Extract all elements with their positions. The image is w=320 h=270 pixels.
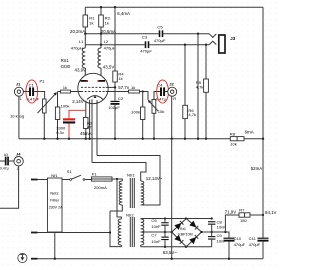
svg-text:Ntr2: Ntr2	[126, 213, 134, 218]
wire B+ right drop	[262, 7, 264, 215]
svg-text:63,5V~: 63,5V~	[163, 250, 177, 255]
tube cathode filament arc	[87, 96, 103, 100]
node dot 100k right	[142, 90, 144, 92]
svg-text:4,7k: 4,7k	[196, 84, 205, 89]
svg-text:4,7k: 4,7k	[188, 112, 197, 117]
svg-text:10nF: 10nF	[151, 224, 161, 229]
tube lead heater b	[96, 100, 98, 155]
earth symbol	[18, 253, 27, 262]
node dots plus line	[211, 231, 213, 233]
Ntr2 primary coil	[118, 219, 121, 245]
red highlight ellipse C1	[26, 80, 38, 103]
node dots secondary rails	[164, 217, 166, 219]
svg-text:J4: J4	[16, 151, 21, 156]
wire 1k right to pot2 wiper	[140, 92, 149, 101]
svg-text:12,14V~: 12,14V~	[146, 176, 163, 181]
node dot line B / L2	[100, 44, 102, 46]
potentiometer P1 10k log	[43, 99, 47, 113]
svg-text:10nF: 10nF	[151, 239, 161, 244]
wire pot2 bottom to rail	[153, 113, 155, 138]
Ntr2 core	[130, 217, 134, 247]
wire ground drop to PSU	[171, 139, 173, 259]
wire mains L down to Ntr2	[117, 179, 121, 219]
Ntr1 core	[130, 178, 134, 208]
capacitor C5 470µF	[159, 30, 161, 37]
svg-text:P1: P1	[40, 78, 46, 83]
svg-text:C2: C2	[118, 96, 124, 101]
svg-text:Br1: Br1	[180, 227, 186, 231]
node dot line A / R1	[84, 33, 86, 35]
svg-text:6mA: 6mA	[245, 129, 254, 134]
connector J3 body	[219, 35, 225, 53]
diode bottom-left	[174, 235, 181, 242]
inductor L1 470µH	[82, 34, 85, 81]
wire Ntr2 primary bottom	[110, 211, 121, 247]
svg-text:GI30: GI30	[61, 64, 71, 69]
potentiometer P2 10k	[152, 100, 156, 114]
svg-text:470µH: 470µH	[71, 45, 83, 50]
svg-text:470µF: 470µF	[154, 38, 166, 43]
wire bridge AC bottom rail	[141, 245, 212, 247]
svg-text:100k: 100k	[61, 103, 71, 108]
svg-text:150: 150	[240, 218, 248, 223]
wire bridge AC top rail	[141, 218, 212, 221]
svg-text:Rö1: Rö1	[61, 58, 70, 63]
capacitor 3300µF 6.3v red highlighted	[63, 118, 75, 120]
wire red cathode bypass link	[69, 110, 86, 118]
svg-text:6,4mA: 6,4mA	[117, 11, 130, 16]
svg-text:84,1V: 84,1V	[265, 210, 277, 215]
tube control grid dashed	[81, 91, 106, 93]
switch S1	[62, 175, 92, 179]
diode top-left	[174, 223, 181, 230]
svg-text:10k: 10k	[158, 109, 166, 114]
capacitor C11 470µF	[262, 215, 264, 238]
earth dash	[31, 258, 38, 260]
svg-text:470µF: 470µF	[140, 49, 152, 54]
node dots on common rail	[43, 138, 45, 140]
wire earth rail	[38, 258, 264, 260]
node dot mains L	[116, 178, 118, 180]
wire heater run a	[92, 163, 146, 182]
node dot R3 top	[100, 6, 102, 8]
svg-text:20,2mA: 20,2mA	[70, 29, 85, 34]
resistor R5 4,7k	[204, 79, 209, 92]
svg-text:J1: J1	[16, 82, 21, 87]
wire R7 to 84,1V node	[250, 214, 263, 216]
node dots earth rail	[54, 258, 56, 260]
svg-text:20,6mA: 20,6mA	[101, 29, 116, 34]
svg-text:43,5V: 43,5V	[103, 65, 115, 70]
resistor R8 10k	[230, 137, 244, 141]
wire output line B	[85, 44, 209, 46]
node dot line A jack contact	[197, 33, 199, 35]
wire J1 to C1	[23, 91, 29, 93]
svg-text:F1: F1	[92, 171, 97, 176]
resistor 100k left	[55, 107, 59, 120]
wire speaker return right	[205, 45, 207, 139]
wire fuse to Ntr1	[112, 179, 122, 181]
capacitor C3 470µF	[145, 41, 147, 48]
svg-text:0,47µ: 0,47µ	[0, 167, 9, 171]
svg-text:57,7v: 57,7v	[118, 85, 130, 90]
capacitor C9 10nF	[208, 236, 215, 237]
mains dash L	[31, 179, 38, 181]
svg-text:C5: C5	[157, 25, 163, 30]
node dot line B jack contact	[205, 44, 207, 46]
resistor 1k grid stopper left	[58, 91, 61, 93]
svg-text:L1: L1	[79, 39, 84, 44]
svg-text:10k: 10k	[230, 142, 238, 147]
svg-text:J2: J2	[169, 82, 174, 87]
inductor L2 470µH	[98, 45, 101, 81]
svg-text:R7: R7	[239, 208, 245, 213]
connector J4 aux with capacitor	[0, 160, 14, 162]
svg-text:C7: C7	[151, 232, 157, 237]
svg-text:A3: A3	[4, 153, 8, 157]
svg-text:L2: L2	[104, 39, 109, 44]
wire Ntr1 primary bottom	[110, 205, 122, 211]
resistor R6 4,7k	[184, 45, 186, 139]
Ntr1 primary coil	[119, 181, 122, 205]
wire C1 to P1	[34, 92, 45, 100]
wire bridge plus output	[202, 232, 230, 238]
capacitor C6 10nF	[164, 219, 166, 237]
wire pot2 top to C4	[154, 92, 160, 100]
wire J1 ground drop	[18, 96, 20, 139]
wire bridge DC minus / centre tap	[141, 231, 173, 233]
svg-text:71,9V: 71,9V	[225, 210, 237, 215]
red highlight ellipse C4	[157, 80, 169, 103]
jack J3 upper switch contact	[209, 34, 216, 38]
node dot screen grid 57,7v	[114, 86, 116, 88]
wire wiper node down	[57, 92, 59, 139]
svg-text:S1: S1	[67, 169, 73, 174]
mains dash N	[31, 232, 38, 234]
svg-text:KBP10M: KBP10M	[178, 232, 192, 236]
svg-text:R: R	[173, 96, 176, 101]
svg-text:470µF: 470µF	[234, 242, 246, 247]
resistor R1	[84, 7, 86, 34]
svg-text:10nF: 10nF	[217, 224, 227, 229]
svg-text:100k: 100k	[131, 109, 141, 114]
bridge rectifier Br1 KBP10M diamond	[172, 219, 202, 247]
wire P1 bottom to rail	[43, 113, 45, 139]
svg-text:Filter: Filter	[50, 198, 60, 203]
wire J2 ground drop	[171, 96, 173, 139]
tube anode plate left	[81, 80, 89, 82]
wire J4 ground to left edge	[0, 166, 19, 208]
wire output line A	[85, 33, 209, 35]
node dot R6 top on line B	[184, 44, 186, 46]
tube lead cathode to R2	[85, 101, 87, 118]
svg-text:C11: C11	[249, 236, 257, 241]
svg-text:R8: R8	[230, 131, 236, 136]
mains filter Nf1 box	[48, 178, 63, 232]
svg-text:52mA: 52mA	[251, 166, 263, 171]
diode top-right	[189, 221, 196, 228]
resistor 100k right	[142, 92, 144, 139]
node dot mains N junction	[109, 231, 111, 233]
capacitor C1 0,47µF	[29, 87, 31, 96]
svg-text:470µH: 470µH	[104, 45, 116, 50]
capacitor C8 10nF	[208, 221, 215, 222]
svg-text:C10: C10	[234, 236, 242, 241]
wire speaker return left	[197, 34, 199, 139]
fuse F1 200mA	[92, 177, 113, 181]
wire 71,9V riser	[225, 215, 239, 232]
svg-text:200mA: 200mA	[94, 185, 107, 190]
svg-text:230V 2A: 230V 2A	[49, 206, 63, 210]
capacitor C2 100µF	[111, 101, 120, 102]
tube lead heater ground	[89, 100, 91, 139]
diode bottom-right	[189, 237, 196, 244]
capacitor C10 470µF	[224, 238, 235, 239]
capacitor C7 10nF	[161, 237, 168, 238]
svg-text:45mA: 45mA	[80, 131, 92, 136]
wire B+ top rail	[85, 6, 263, 8]
wire link line A to line B	[100, 34, 102, 45]
svg-text:C1: C1	[29, 83, 35, 88]
capacitor C4 0,47µF	[160, 87, 162, 96]
node dot R4 column top	[114, 6, 116, 8]
resistor 1k grid stopper right	[129, 90, 140, 93]
tube screen grid dashed	[81, 86, 106, 88]
wire common rail	[19, 138, 263, 140]
wire mains N	[38, 232, 111, 234]
tube anode plate right	[98, 80, 106, 82]
svg-text:Ntr1: Ntr1	[127, 172, 135, 177]
node dot line A / R3	[100, 33, 102, 35]
connector J2	[168, 87, 177, 96]
wire C4 to J2	[165, 91, 168, 93]
tube Rö1 GI30 envelope	[78, 73, 108, 103]
wire heater run b	[97, 156, 160, 206]
Ntr2 secondary coil	[141, 219, 144, 245]
wire filter earth drop	[54, 232, 56, 259]
svg-text:43,9V: 43,9V	[75, 67, 87, 72]
svg-text:Netz: Netz	[50, 191, 58, 196]
svg-text:47: 47	[87, 125, 92, 130]
connector J1	[14, 87, 23, 96]
svg-text:470µF: 470µF	[249, 242, 261, 247]
svg-text:C6: C6	[151, 218, 157, 223]
jack J3 lower switch contact	[209, 41, 216, 45]
resistor R3	[100, 7, 102, 34]
svg-text:2,14V: 2,14V	[72, 99, 84, 104]
svg-text:J3: J3	[230, 36, 235, 41]
resistor R2 47	[84, 118, 89, 129]
Ntr1 secondary coil	[141, 181, 144, 205]
tube lead heater a	[91, 99, 93, 162]
resistor R4 1k	[114, 7, 116, 101]
svg-text:C3: C3	[142, 34, 148, 39]
svg-text:100µF: 100µF	[108, 105, 120, 110]
svg-text:10 k log: 10 k log	[10, 113, 24, 118]
svg-text:6.3v: 6.3v	[56, 130, 65, 135]
svg-text:Nf1: Nf1	[51, 173, 58, 178]
resistor R7 150	[239, 213, 250, 217]
